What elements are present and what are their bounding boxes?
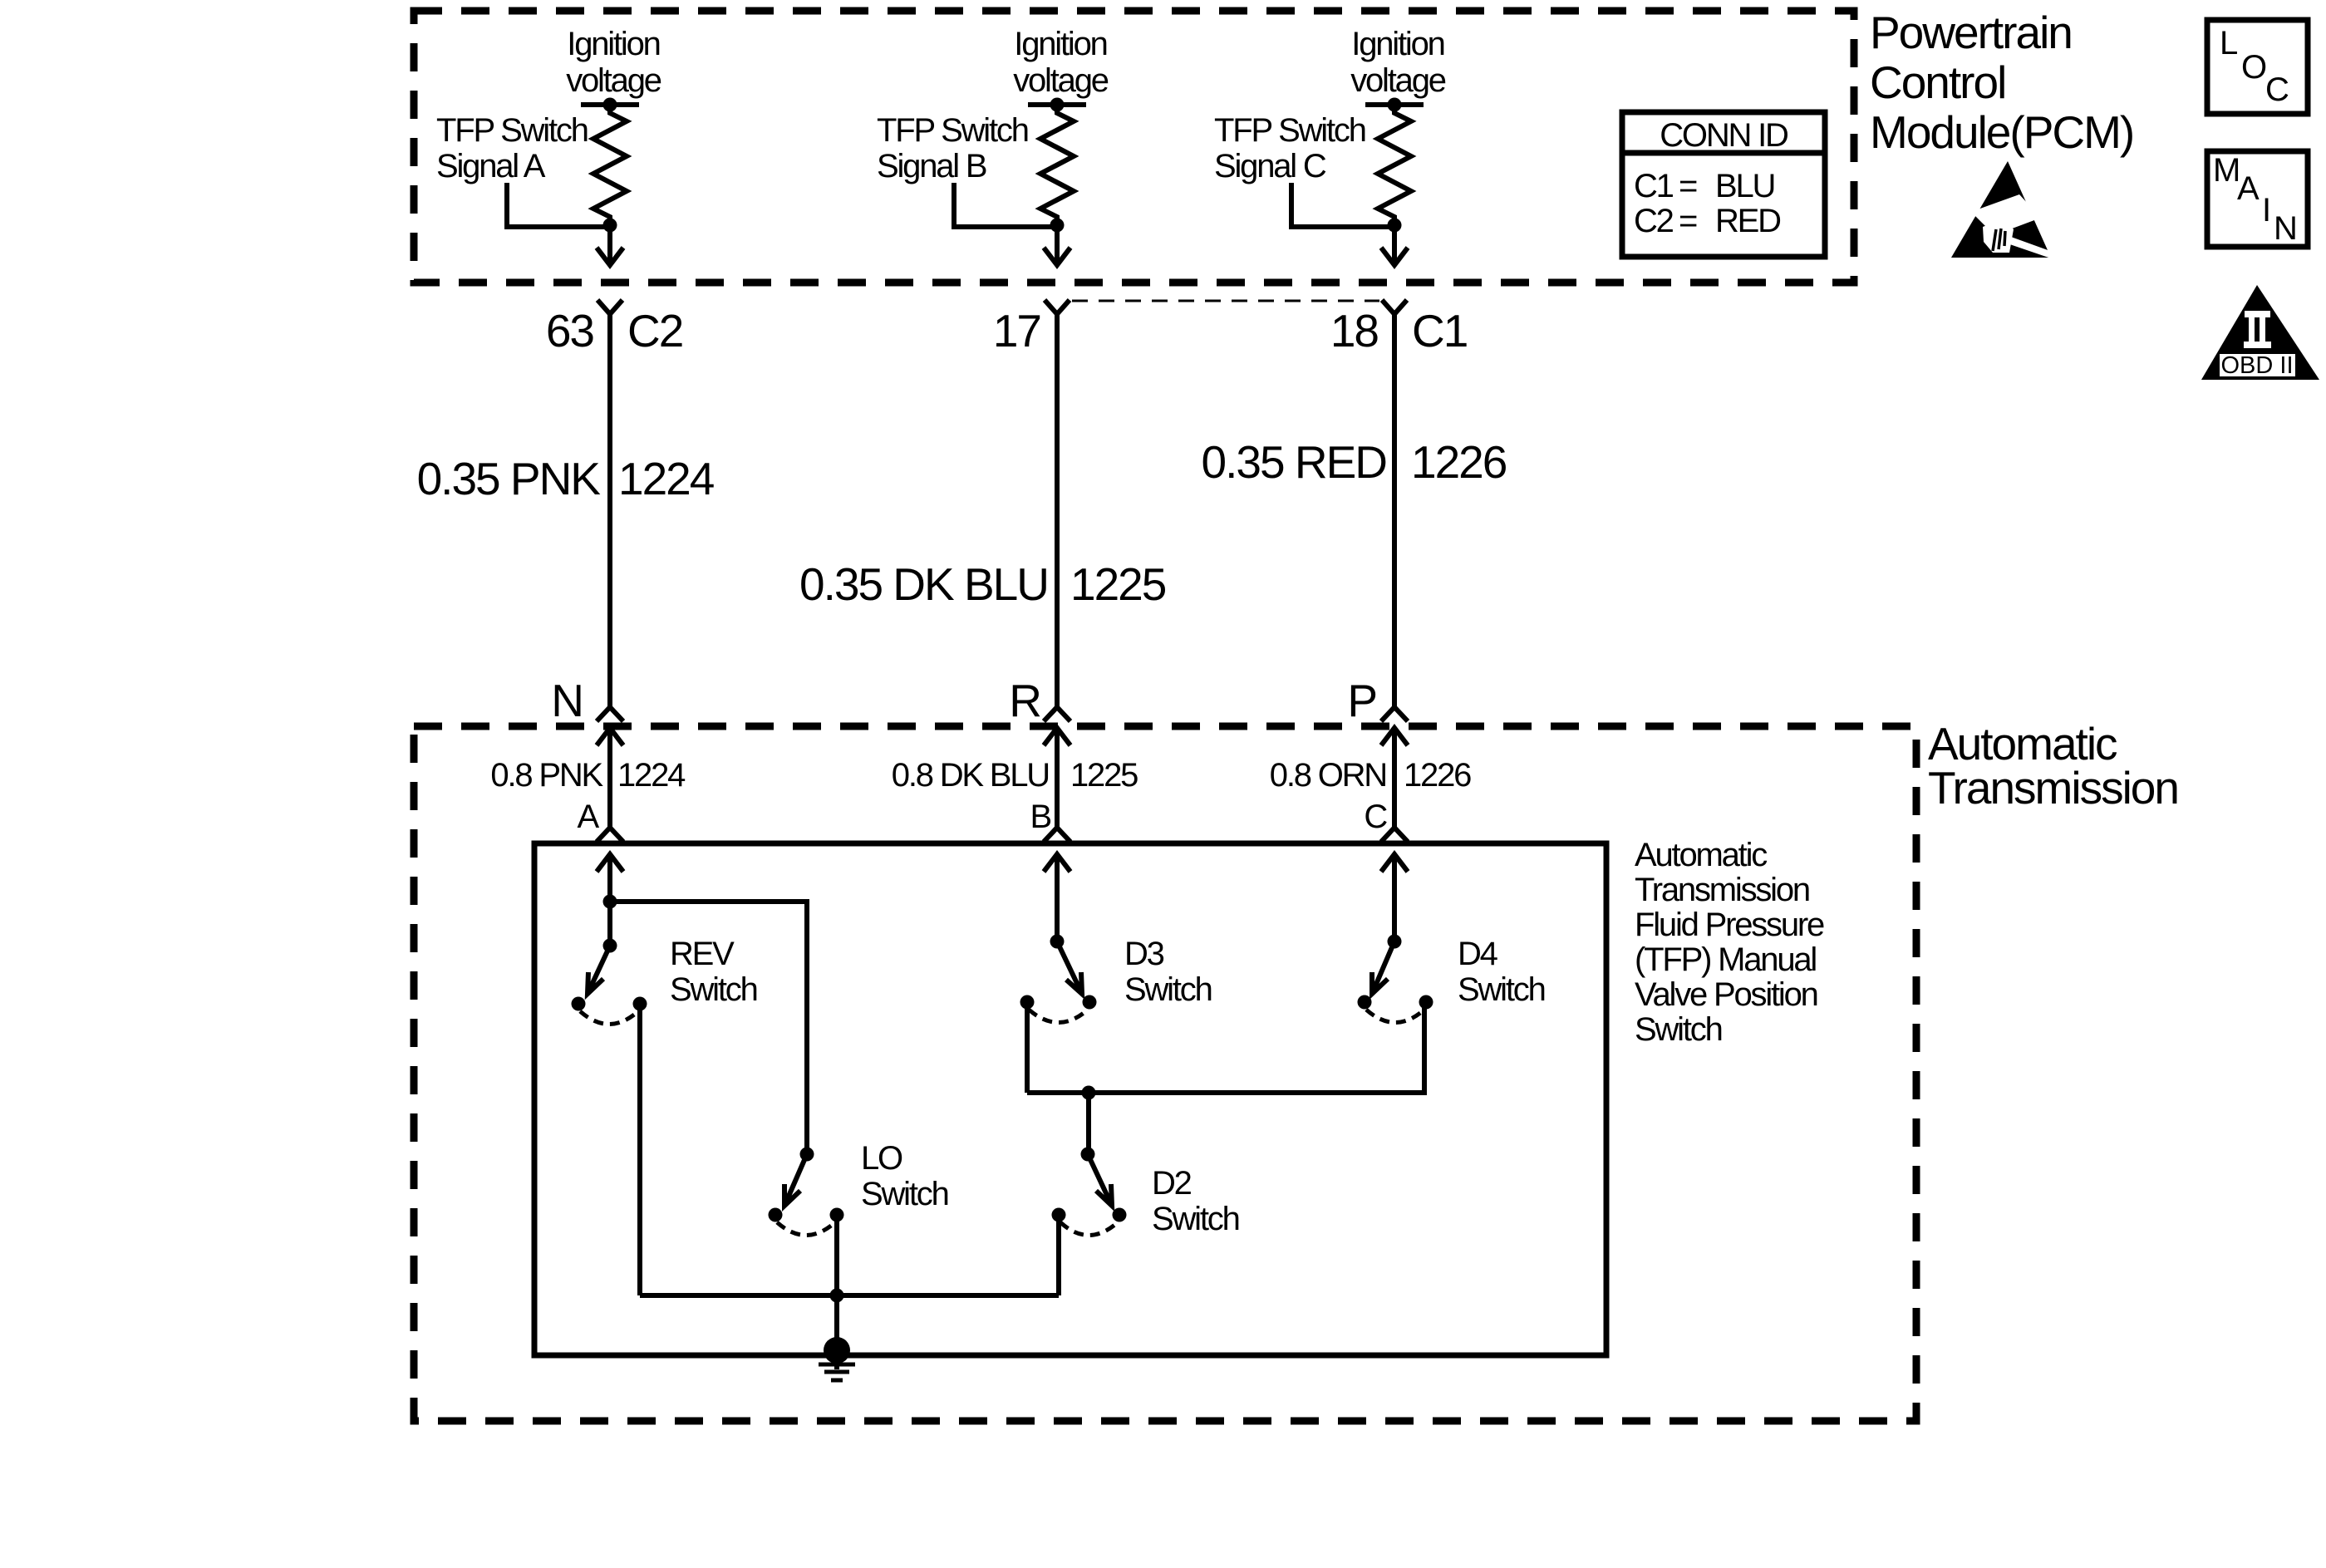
- wire 1226 (RED): [1392, 314, 1397, 706]
- ground bus wire: [640, 1293, 1059, 1298]
- MAIN symbol box: [2207, 151, 2308, 247]
- resistor R2 (TFP Switch Signal B pull-up): [1040, 105, 1074, 225]
- svg-text:Ignition: Ignition: [1014, 26, 1106, 62]
- svg-text:Ignition: Ignition: [1351, 26, 1443, 62]
- svg-text:17: 17: [993, 305, 1040, 356]
- connector fork B at switch: [1044, 828, 1070, 842]
- svg-text:Switch: Switch: [670, 971, 757, 1008]
- wire LO contact down to bus: [834, 1215, 839, 1295]
- Automatic Transmission dashed box: [414, 726, 1916, 1421]
- svg-text:18: 18: [1330, 305, 1379, 356]
- resistor R3 (TFP Switch Signal C pull-up): [1378, 105, 1411, 225]
- wire link to D2 pivot: [1086, 1093, 1091, 1154]
- D4 switch: [1358, 935, 1433, 1023]
- wire 1224 (PNK): [607, 314, 612, 706]
- svg-text:1225: 1225: [1070, 757, 1138, 794]
- pin 63 connector fork: [597, 300, 622, 314]
- svg-text:B: B: [1030, 799, 1051, 835]
- svg-text:D4: D4: [1458, 936, 1498, 972]
- svg-text:Switch: Switch: [1152, 1201, 1239, 1237]
- svg-text:Signal C: Signal C: [1214, 148, 1326, 184]
- svg-text:0.8 ORN: 0.8 ORN: [1270, 757, 1386, 794]
- svg-text:Signal B: Signal B: [877, 148, 986, 184]
- svg-text:0.8 DK BLU: 0.8 DK BLU: [892, 757, 1049, 794]
- svg-text:REV: REV: [670, 936, 735, 972]
- svg-text:TFP Switch: TFP Switch: [1214, 112, 1365, 149]
- LOC symbol box: [2207, 20, 2308, 114]
- wire bus to ground: [834, 1295, 839, 1350]
- wire 1225 (DK BLU): [1055, 314, 1060, 706]
- wire REV contact down to bus: [637, 1004, 642, 1295]
- REV switch: [572, 939, 647, 1025]
- resistor R1 (TFP Switch Signal A pull-up): [593, 105, 627, 225]
- ESD sensitive device symbol: [1951, 161, 2059, 260]
- svg-text:Valve Position: Valve Position: [1635, 976, 1817, 1013]
- arrow to pin 18: [1381, 225, 1408, 265]
- svg-text:Automatic: Automatic: [1635, 837, 1767, 873]
- svg-text:TFP Switch: TFP Switch: [436, 112, 588, 149]
- svg-text:L: L: [2220, 25, 2237, 61]
- svg-text:Ignition: Ignition: [567, 26, 659, 62]
- svg-text:C: C: [2265, 71, 2289, 108]
- svg-text:0.35 RED: 0.35 RED: [1202, 436, 1387, 488]
- svg-text:C1: C1: [1634, 168, 1674, 204]
- arrow into transmission R: [1044, 728, 1070, 828]
- svg-text:R: R: [1009, 675, 1040, 726]
- svg-text:Transmission: Transmission: [1928, 762, 2178, 813]
- svg-text:P: P: [1347, 675, 1376, 726]
- svg-text:LO: LO: [861, 1140, 902, 1177]
- C1 connector dashed tie line: [1072, 300, 1379, 302]
- OBD II symbol: [2201, 285, 2319, 380]
- arrow A into switch: [597, 854, 623, 902]
- svg-text:CONN ID: CONN ID: [1660, 117, 1788, 154]
- svg-text:Signal A: Signal A: [436, 148, 546, 184]
- svg-text:voltage: voltage: [1013, 62, 1109, 99]
- connector fork R: [1044, 707, 1070, 721]
- node: ignition voltage B: [1028, 102, 1086, 107]
- junction ground bus: [830, 1289, 844, 1303]
- wire signal C tap: [1291, 183, 1394, 227]
- LO switch: [769, 1148, 844, 1236]
- svg-text:(TFP) Manual: (TFP) Manual: [1635, 941, 1816, 978]
- wire junction to REV pivot: [607, 902, 612, 946]
- svg-text:D2: D2: [1152, 1165, 1192, 1202]
- junction below R2: [1050, 219, 1065, 233]
- svg-text:1224: 1224: [617, 757, 686, 794]
- svg-text:O: O: [2241, 49, 2266, 86]
- svg-text:Switch: Switch: [1458, 971, 1545, 1008]
- svg-text:1226: 1226: [1411, 436, 1507, 488]
- svg-text:M: M: [2213, 152, 2239, 189]
- wire D2 contact down to bus: [1056, 1215, 1061, 1295]
- svg-text:0.35 DK BLU: 0.35 DK BLU: [799, 558, 1048, 610]
- svg-text:TFP Switch: TFP Switch: [877, 112, 1028, 149]
- arrow C into switch: [1381, 854, 1408, 941]
- svg-text:=: =: [1679, 203, 1697, 239]
- svg-text:OBD II: OBD II: [2220, 352, 2293, 379]
- svg-text:0.35 PNK: 0.35 PNK: [417, 453, 602, 504]
- wire D3 contact down: [1025, 1002, 1030, 1093]
- arrow to pin 17: [1044, 225, 1070, 265]
- D2 switch: [1052, 1148, 1127, 1236]
- pin 18 connector fork: [1382, 300, 1407, 314]
- svg-text:A: A: [2237, 170, 2260, 207]
- D3 switch: [1020, 935, 1097, 1023]
- connector fork A at switch: [597, 828, 623, 842]
- svg-text:Transmission: Transmission: [1635, 872, 1809, 908]
- wire D3-D4 link: [1027, 1002, 1424, 1093]
- svg-text:63: 63: [546, 305, 594, 356]
- svg-text:Switch: Switch: [861, 1176, 948, 1212]
- svg-text:C2: C2: [627, 305, 682, 356]
- svg-text:I: I: [2262, 192, 2269, 229]
- svg-text:Control: Control: [1870, 57, 2005, 108]
- connector fork P: [1381, 707, 1408, 721]
- svg-text:A: A: [578, 799, 600, 835]
- svg-text:0.8 PNK: 0.8 PNK: [490, 757, 603, 794]
- pin 17 connector fork: [1045, 300, 1070, 314]
- svg-text:1224: 1224: [618, 453, 714, 504]
- PCM module dashed box: [414, 11, 1854, 283]
- node: ignition voltage C: [1365, 102, 1424, 107]
- arrow B into switch: [1044, 854, 1070, 941]
- svg-text:BLU: BLU: [1715, 168, 1774, 204]
- wire signal A tap: [507, 183, 610, 227]
- node: ignition voltage A: [581, 102, 639, 107]
- svg-text:Fluid Pressure: Fluid Pressure: [1635, 907, 1824, 943]
- svg-text:Module(PCM): Module(PCM): [1870, 106, 2133, 158]
- junction D3/D4 link: [1082, 1086, 1096, 1100]
- junction A branch: [603, 895, 617, 909]
- junction below R1: [603, 219, 617, 233]
- svg-text:C2: C2: [1634, 203, 1674, 239]
- svg-text:RED: RED: [1715, 203, 1780, 239]
- svg-text:1225: 1225: [1070, 558, 1166, 610]
- svg-text:D3: D3: [1124, 936, 1164, 972]
- svg-text:C: C: [1364, 799, 1387, 835]
- svg-text:C1: C1: [1412, 305, 1467, 356]
- TFP manual valve position switch box: [534, 843, 1606, 1355]
- svg-text:voltage: voltage: [566, 62, 661, 99]
- svg-text:N: N: [551, 675, 583, 726]
- wire signal B tap: [954, 183, 1057, 227]
- svg-text:voltage: voltage: [1350, 62, 1446, 99]
- ground: [819, 1337, 855, 1380]
- svg-text:N: N: [2274, 210, 2296, 247]
- connector fork N: [597, 707, 623, 721]
- svg-text:1226: 1226: [1404, 757, 1471, 794]
- connector fork C at switch: [1381, 828, 1408, 842]
- svg-text:Switch: Switch: [1124, 971, 1212, 1008]
- svg-text:=: =: [1679, 168, 1697, 204]
- CONN ID table: [1622, 112, 1825, 257]
- junction below R3: [1388, 219, 1402, 233]
- svg-text:Powertrain: Powertrain: [1870, 7, 2072, 58]
- arrow into transmission N: [597, 728, 623, 828]
- svg-text:Switch: Switch: [1635, 1011, 1722, 1048]
- arrow into transmission P: [1381, 728, 1408, 828]
- arrow to pin 63: [597, 225, 623, 265]
- wire A junction to LO switch: [610, 902, 807, 1154]
